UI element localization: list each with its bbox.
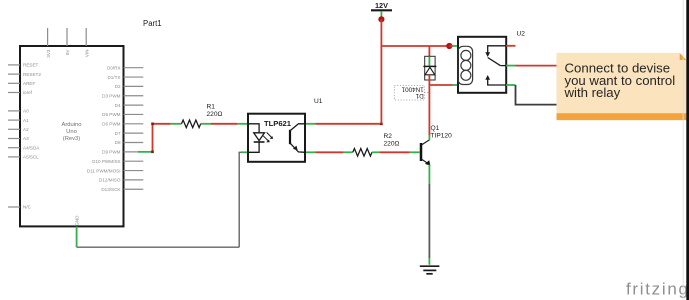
svg-text:D0/RX: D0/RX (107, 65, 121, 70)
resistor R1 (171, 104, 223, 128)
svg-text:VIN: VIN (84, 50, 89, 58)
wire branch to relay (381, 45, 449, 47)
svg-text:D9 PWM: D9 PWM (102, 150, 121, 155)
svg-text:R1: R1 (207, 104, 216, 111)
svg-text:D3 PWM: D3 PWM (102, 93, 121, 98)
emitter arrow (425, 160, 431, 165)
cathode bar (423, 65, 436, 67)
svg-text:A0: A0 (23, 109, 29, 114)
label box dashed (394, 85, 424, 100)
svg-text:A2: A2 (23, 127, 29, 132)
svg-text:GND: GND (75, 215, 80, 226)
right border line (686, 0, 689, 300)
pin 3V3 stub (47, 28, 49, 46)
wire red to relay coil top (449, 45, 452, 47)
wire 12V rail vertical (380, 19, 382, 124)
pin VIN stub (85, 28, 87, 46)
switch common (488, 46, 506, 53)
wire red relay NC to note (516, 65, 558, 67)
wire red R2 to Q1 base (379, 151, 410, 153)
pin4 stub (305, 123, 315, 125)
Arduino body (20, 46, 124, 226)
svg-text:Uno: Uno (66, 129, 77, 135)
svg-text:D5 PWM: D5 PWM (102, 112, 121, 117)
bendpoint (151, 123, 154, 126)
body rect (425, 56, 435, 80)
pin 5V stub (66, 28, 68, 46)
svg-text:A5/SCL: A5/SCL (23, 155, 39, 160)
svg-text:D8: D8 (115, 140, 121, 145)
wire black relay NO down (516, 85, 557, 105)
svg-text:3V3: 3V3 (46, 49, 51, 58)
svg-text:12V: 12V (375, 1, 388, 10)
lower lead red (428, 75, 430, 85)
wire red vertical up from D9 (152, 124, 154, 152)
bendpoint (151, 151, 154, 154)
pin1 stub (237, 123, 248, 125)
collector lead (422, 140, 430, 145)
svg-text:A4/SDA: A4/SDA (23, 145, 40, 150)
coil loop 1 (461, 50, 471, 60)
wire GND green vertical (76, 226, 78, 247)
svg-text:Q1: Q1 (431, 125, 440, 132)
emitter arrow (293, 146, 298, 151)
light arrow 2 (267, 132, 272, 137)
svg-text:(Rev3): (Rev3) (63, 136, 80, 142)
wire GND gray vertical up to U1 pin2 (239, 152, 242, 247)
switch blade (488, 58, 501, 66)
right pin labels (87, 65, 122, 192)
svg-text:D7: D7 (115, 131, 121, 136)
LED cathode lead (248, 142, 259, 152)
wire gray emitter to ground (428, 184, 430, 258)
base bar (420, 143, 423, 161)
LED cathode bar (254, 141, 265, 143)
svg-text:Arduino: Arduino (62, 122, 82, 128)
svg-text:ioref: ioref (23, 90, 33, 95)
op-to U1 TLP621 (237, 98, 323, 162)
collector (291, 124, 306, 131)
coil loop 3 (461, 70, 471, 80)
svg-text:220Ω: 220Ω (384, 141, 400, 148)
svg-text:D12/MISO: D12/MISO (99, 178, 121, 183)
emitter (291, 144, 306, 153)
bendpoint (380, 123, 383, 126)
svg-text:D6 PWM: D6 PWM (102, 122, 121, 127)
transistor Q1 TIP120 (421, 125, 452, 166)
wire red U1 pin3 to R2 (315, 151, 344, 153)
svg-text:TLP621: TLP621 (264, 119, 292, 128)
wire red R1 to U1 (211, 123, 237, 125)
svg-text:D1/TX: D1/TX (107, 75, 120, 80)
svg-text:fritzing: fritzing (626, 280, 689, 299)
light arrow 1 (263, 136, 268, 141)
note: connect to devise (557, 53, 687, 120)
svg-text:U2: U2 (517, 31, 526, 38)
coil envelope (458, 46, 473, 84)
svg-text:D13/SCK: D13/SCK (101, 187, 121, 192)
svg-text:5V: 5V (65, 49, 70, 56)
pin3 stub (305, 151, 315, 153)
photo transistor bar (289, 130, 291, 144)
diode D1 1N4001 (394, 46, 436, 100)
wire red diode down to collector (428, 85, 430, 136)
svg-text:R2: R2 (384, 133, 393, 140)
wire red diode to relay coil bottom (429, 84, 452, 86)
wire green to base (410, 151, 420, 153)
relay U2 (458, 31, 525, 93)
svg-text:with relay: with relay (564, 85, 621, 100)
svg-text:TIP120: TIP120 (431, 133, 453, 140)
junction dot (378, 16, 384, 22)
svg-text:U1: U1 (314, 98, 323, 105)
LED anode lead (248, 124, 259, 133)
wire red U1 pin4 to 12V rail (315, 123, 381, 125)
svg-text:A3: A3 (23, 136, 29, 141)
junction dot (446, 43, 452, 49)
svg-text:1N4001: 1N4001 (401, 86, 424, 93)
svg-text:220Ω: 220Ω (207, 111, 223, 118)
NO contact (488, 79, 506, 85)
right pin stubs (124, 68, 144, 190)
resistor R2 (344, 133, 400, 156)
wire green to ground (428, 258, 430, 265)
body (458, 37, 506, 93)
LED triangle (254, 133, 265, 141)
svg-text:D2: D2 (115, 84, 121, 89)
svg-text:N/C: N/C (23, 205, 32, 210)
coil loop 2 (461, 60, 471, 70)
svg-text:RESET2: RESET2 (23, 72, 41, 77)
wire GND gray horizontal (77, 246, 240, 248)
wire red to R1 (153, 123, 171, 125)
triangle (425, 67, 435, 75)
svg-text:RESET: RESET (23, 63, 39, 68)
svg-text:D10 PWM/SS: D10 PWM/SS (92, 159, 120, 164)
top lead red (428, 46, 430, 56)
emitter lead (422, 159, 430, 164)
svg-text:AREF: AREF (23, 81, 35, 86)
svg-text:D11 PWM/MOSI: D11 PWM/MOSI (87, 168, 121, 173)
12V power symbol (371, 1, 392, 17)
wire D9 green (138, 151, 153, 153)
svg-text:A1: A1 (23, 118, 29, 123)
wire green to collector (428, 136, 430, 140)
U1 body (248, 114, 305, 162)
svg-text:D4: D4 (115, 103, 121, 108)
pin2 stub (241, 151, 248, 153)
left pin stubs (8, 65, 20, 207)
inner green lead (428, 57, 430, 66)
Arduino Uno Part1 (8, 19, 162, 227)
pin stubs right (506, 45, 516, 47)
wire green from emitter (428, 165, 430, 184)
left pin labels (23, 63, 41, 210)
ground (420, 266, 440, 274)
svg-text:Part1: Part1 (143, 19, 162, 28)
scrollbar track line (682, 0, 685, 300)
